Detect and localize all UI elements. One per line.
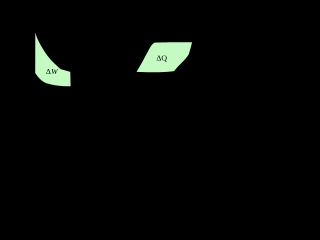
svg-text:ΔQ: ΔQ — [156, 53, 167, 62]
heat area ΔQ (right green region in T–S diagram) — [137, 42, 193, 72]
figure: thermodynamic path-dependence diagram (P–V work area and T–S heat area) — [0, 0, 220, 121]
svg-text:ΔW: ΔW — [46, 67, 59, 76]
work area ΔW (left green region in P–V diagram) — [35, 33, 70, 87]
